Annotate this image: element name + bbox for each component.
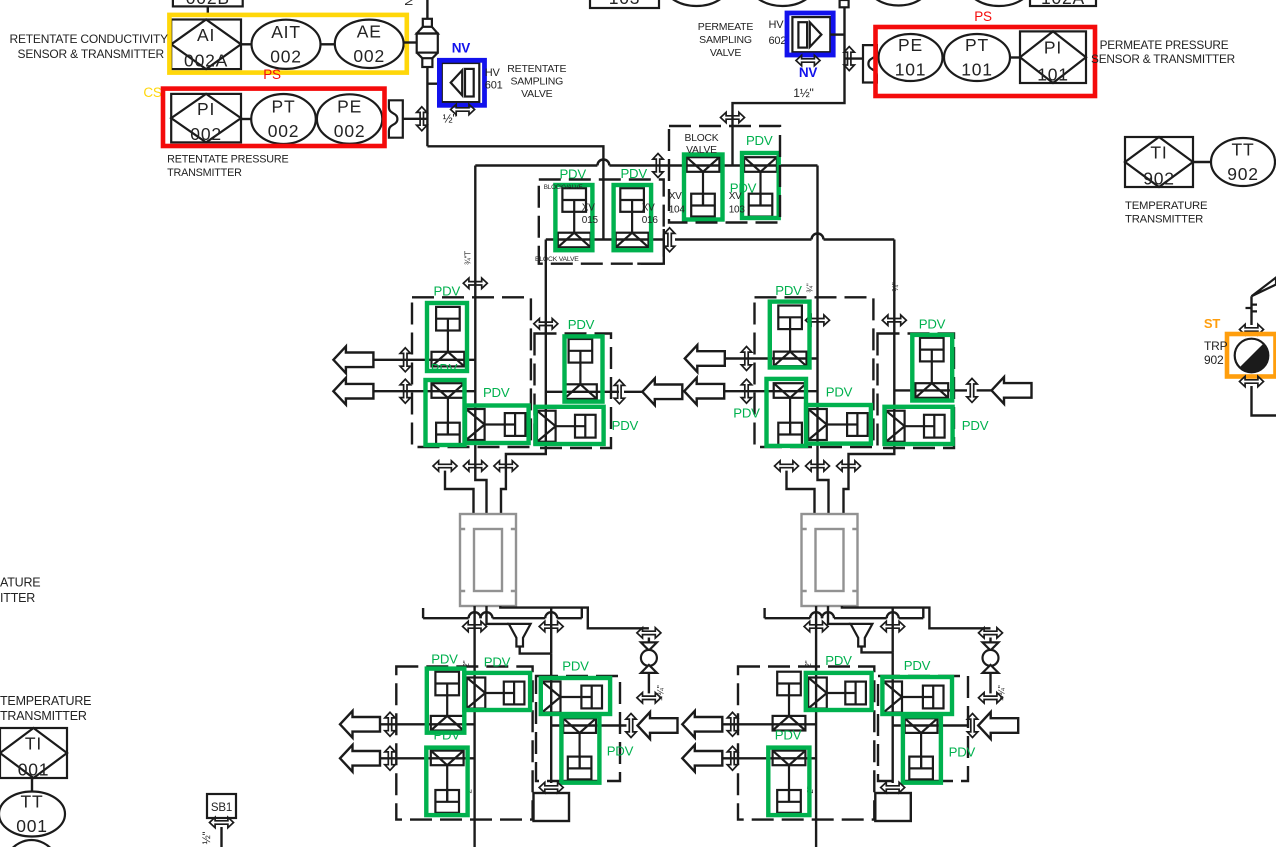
wire retentate line P1 to block valves: [427, 146, 603, 239]
pressure transmitter PT 002: [251, 94, 316, 144]
svg-text:PDV: PDV: [730, 181, 757, 196]
temperature transmitter TT 902: [1211, 138, 1275, 186]
pressure element PE 002: [317, 94, 382, 143]
wire funnel outlet to B1b: [520, 647, 552, 654]
svg-text:TRANSMITTER: TRANSMITTER: [167, 167, 242, 179]
highlight box PDV (green) top-left: [427, 303, 467, 371]
dashed boundary cluster A2 left box: [755, 297, 874, 447]
valve PDV b2 v1 (actuator top, no box): [773, 672, 806, 731]
flange row under cluster2 - 1: [775, 461, 799, 471]
svg-text:602: 602: [769, 35, 787, 47]
highlight box PDV (green) c2 right: [912, 335, 952, 401]
flange under HV601: [451, 104, 475, 114]
svg-text:PDV: PDV: [484, 655, 511, 670]
flange pipe2': [741, 379, 751, 403]
svg-text:N: N: [404, 0, 416, 6]
highlight box permeate pressure group (red): [876, 27, 1096, 96]
arrow pipe2' a: [684, 378, 724, 405]
wire PI to PT: [241, 118, 252, 120]
svg-text:¾": ¾": [805, 283, 814, 292]
flange above drain pot left: [539, 782, 563, 792]
highlight box PDV (green) b2 D: [882, 677, 952, 714]
flange pipe3: [614, 380, 624, 404]
highlight box XV103 (green): [742, 153, 779, 218]
wire steam supply slope symbol: [1252, 278, 1276, 297]
drain pot left: [534, 793, 570, 821]
valve PDV b2 right horizontal (PDV-D'): [883, 682, 943, 713]
svg-text:TRP: TRP: [1204, 339, 1228, 353]
svg-text:PDV: PDV: [431, 651, 458, 666]
flange pipe1': [741, 347, 751, 371]
svg-text:PS: PS: [263, 67, 281, 82]
instrument 103 (cut off at top edge): [590, 0, 659, 8]
wire B1b drop (funnel line through PDV-D): [550, 654, 552, 783]
svg-text:BLOCK VALVE: BLOCK VALVE: [535, 256, 579, 263]
wire pipe3 (right sub-box): [546, 391, 619, 393]
dashed boundary bottom-left cluster: [396, 667, 532, 820]
svg-text:PS: PS: [974, 9, 992, 24]
wire main line A2: [818, 166, 829, 515]
flange below drain valve left: [637, 693, 661, 703]
needle valve HV602: [792, 17, 830, 52]
svg-text:SAMPLING: SAMPLING: [510, 76, 563, 88]
wire pipe2': [724, 390, 817, 392]
flange on header2 branch right: [881, 621, 905, 631]
svg-text:SB1: SB1: [211, 802, 232, 814]
coupling on retentate transmitter line: [389, 100, 403, 137]
instrument 102A (cut off at top edge): [1030, 0, 1096, 8]
instrument ellipse (cut, above PE101): [866, 0, 931, 6]
svg-text:VALVE: VALVE: [710, 47, 741, 59]
drain sample valve left: [641, 642, 657, 673]
svg-text:016: 016: [642, 215, 659, 226]
instrument ellipse (cut, right): [749, 0, 817, 6]
flange left of XV104: [653, 154, 663, 178]
valve PDV horizontal cluster1: [466, 409, 525, 440]
analyzer transmitter AIT 002: [252, 20, 321, 69]
wire drain stem top left: [648, 638, 650, 643]
wire pipe-b bottom-right: [722, 757, 816, 759]
wire pipe-c bottom-left: [551, 724, 626, 726]
svg-text:TEMPERATURE: TEMPERATURE: [1125, 200, 1208, 212]
highlight box NV HV602 (blue): [787, 13, 833, 55]
svg-text:PDV: PDV: [746, 133, 773, 148]
svg-text:1½": 1½": [793, 86, 813, 100]
svg-text:PDV: PDV: [607, 744, 634, 759]
valve PDV b2 inverted-E: [905, 718, 938, 779]
wire line B2: [844, 240, 895, 515]
dashed boundary cluster A2 right box: [878, 334, 955, 449]
drain pot right: [875, 793, 911, 821]
svg-text:103: 103: [609, 0, 641, 8]
svg-text:601: 601: [485, 80, 503, 92]
svg-text:AE: AE: [357, 22, 382, 42]
inline filter body: [417, 19, 438, 67]
valve PDV b1 inverted-E: [563, 718, 596, 779]
svg-text:PDV: PDV: [433, 728, 460, 743]
svg-text:NV: NV: [452, 41, 471, 56]
dashed boundary cluster A1 right box: [535, 334, 612, 449]
svg-text:=¾": =¾": [997, 685, 1007, 700]
svg-text:PDV: PDV: [612, 418, 639, 433]
svg-text:½": ½": [443, 112, 457, 126]
wire header to PE101: [845, 57, 864, 59]
valve PDV b2 inverted: [773, 751, 806, 813]
svg-text:RETENTATE CONDUCTIVITY: RETENTATE CONDUCTIVITY: [10, 32, 169, 46]
block valve XV104: [687, 157, 720, 216]
membrane housing right: [802, 514, 858, 606]
svg-text:PERMEATE: PERMEATE: [698, 21, 754, 33]
wire AE to filter: [404, 41, 417, 43]
coupling on permeate transmitter line: [863, 45, 877, 82]
valve PDV c1 right horizontal: [537, 411, 596, 442]
svg-text:ATURE: ATURE: [0, 576, 40, 590]
highlight box PDV (green) c1 right: [565, 336, 603, 401]
temperature element TE 001 (cut at bottom): [0, 840, 65, 847]
dashed boundary bottom-right cluster: [738, 667, 874, 820]
wire coupling to sample line: [403, 118, 428, 120]
pressure element PE 101: [879, 34, 943, 81]
drain sample valve right: [983, 642, 999, 673]
wire header2 branch to B1b': [892, 608, 894, 653]
flange pipe-b': [727, 746, 737, 770]
outlet arrow pipe2: [333, 378, 373, 405]
svg-text:TT: TT: [1232, 140, 1255, 160]
svg-text:PDV: PDV: [431, 361, 458, 376]
highlight box XV015 (green): [555, 185, 592, 250]
flange on B1: [534, 319, 558, 329]
flange above drain pot right: [881, 782, 905, 792]
flange row under cluster1 - 3: [494, 461, 518, 471]
highlight box PDV (green) left inverted: [426, 380, 465, 445]
flange row under cluster1 - 1: [433, 461, 457, 471]
wire header1 right: [765, 608, 811, 618]
valve PDV inverted cluster1: [432, 383, 465, 445]
svg-text:002: 002: [268, 121, 300, 141]
pipe cap top of permeate line: [840, 0, 849, 7]
wire drain stem bottom right: [989, 673, 991, 694]
svg-text:PDV: PDV: [962, 418, 989, 433]
dashed boundary cluster A1 left box: [412, 297, 531, 447]
svg-text:CS: CS: [143, 85, 162, 100]
svg-text:902: 902: [1204, 353, 1224, 367]
svg-text:VALVE: VALVE: [686, 145, 717, 156]
wire funnel feed right: [828, 606, 851, 624]
flange on retentate drop right: [804, 621, 828, 631]
wire header2 left (permeate to drain): [500, 606, 649, 628]
flange on permeate drop (x=732): [721, 112, 745, 122]
block valve XV015: [558, 188, 591, 247]
svg-text:TI: TI: [25, 734, 42, 754]
wire retentate drop right (to bottom cluster): [815, 606, 817, 847]
highlight box PDV (green) b1 E: [561, 716, 599, 782]
flange pipe-c': [967, 714, 977, 738]
wire 002B to AI: [207, 6, 209, 15]
valve PDV c2 horizontal: [808, 409, 867, 440]
flange on header2 branch left: [539, 621, 563, 631]
svg-text:902: 902: [1227, 164, 1259, 184]
flange above steam trap: [1240, 324, 1264, 334]
flange pipe-b: [385, 746, 395, 770]
wire line B1: [501, 240, 546, 515]
temperature transmitter TT 001: [0, 792, 65, 837]
highlight box PDV (green) b1 D: [541, 678, 610, 714]
highlight box PDV (green) c2 v1: [770, 302, 810, 368]
svg-text:002: 002: [353, 46, 385, 66]
valve PDV b2 horizontal: [808, 678, 866, 709]
valve PDV b1 v1 (actuator top): [431, 672, 464, 731]
svg-text:TI: TI: [1150, 143, 1167, 163]
wire drain stem top right: [989, 638, 991, 643]
flange pipe-c: [626, 714, 636, 738]
svg-text:TEMPERATURE: TEMPERATURE: [0, 694, 91, 708]
svg-text:NV: NV: [799, 65, 818, 80]
highlight box PDV (green) c2 horizontal: [806, 405, 871, 444]
flange under SB1: [210, 817, 234, 827]
svg-text:AI: AI: [197, 25, 215, 45]
dashed boundary bottom-left right box: [536, 676, 620, 781]
wire pipe-a bottom-left: [380, 723, 475, 725]
arrow pipe3: [642, 378, 682, 405]
valve PDV b1 horizontal: [467, 678, 525, 709]
svg-text:½": ½": [201, 831, 213, 844]
flange row under cluster1 - 2: [463, 461, 487, 471]
valve PDV b1 right horizontal (PDV-D): [542, 682, 602, 713]
svg-text:BLOCK: BLOCK: [685, 133, 719, 144]
svg-text:104: 104: [669, 205, 686, 216]
svg-text:TRANSMITTER: TRANSMITTER: [0, 709, 87, 723]
svg-text:2": 2": [462, 660, 471, 667]
dashed boundary XV015/016 box: [539, 180, 664, 264]
wire pipe3' stub: [977, 389, 992, 391]
svg-text:SENSOR & TRANSMITTER: SENSOR & TRANSMITTER: [18, 47, 165, 61]
svg-text:101: 101: [961, 60, 993, 80]
wire TI902 to TT902: [1193, 161, 1211, 163]
wire PT101 to PI101: [1010, 56, 1020, 58]
flange above drain valve left: [637, 628, 661, 638]
svg-text:SENSOR & TRANSMITTER: SENSOR & TRANSMITTER: [1091, 52, 1235, 66]
flange right of XV016: [664, 228, 674, 252]
highlight box retentate pressure group (red): [163, 89, 385, 146]
wire AIT to AE: [321, 43, 335, 45]
wire drain stem bottom left: [648, 673, 650, 694]
outlet arrow pipe1: [333, 346, 373, 373]
flange pipe3': [967, 378, 977, 402]
wire pipe-b bottom-left: [380, 757, 475, 759]
wire pipe1': [725, 357, 818, 359]
svg-text:XV: XV: [642, 203, 655, 214]
wire permeate line P2 with hop over P1 drop: [475, 164, 597, 166]
wire header2 right (permeate to drain): [842, 606, 991, 628]
valve PDV c2 right-top: [915, 338, 948, 398]
flange under HV602: [796, 55, 820, 65]
highlight box PDV (green) b1 inverted: [426, 748, 467, 816]
arrow pipe-a: [340, 711, 380, 738]
flange row under cluster2 - 2: [806, 461, 830, 471]
svg-text:SAMPLING: SAMPLING: [699, 34, 752, 46]
wire permeate sample header: [733, 7, 845, 165]
wire pipe1 (upper outlet): [373, 359, 475, 361]
needle valve HV601: [442, 63, 480, 102]
wire header2 branch to B1b: [550, 608, 552, 654]
flange on retentate transmitter line: [417, 107, 427, 131]
arrow pipe3': [992, 377, 1032, 404]
arrow pipe-c': [978, 712, 1018, 739]
svg-text:PE: PE: [898, 35, 923, 55]
flange on B2: [882, 315, 906, 325]
highlight box PDV (green) b2 h: [806, 673, 872, 710]
funnel right: [851, 624, 873, 647]
svg-text:PT: PT: [272, 97, 296, 117]
block valve XV016: [616, 188, 649, 247]
svg-text:PDV: PDV: [562, 659, 589, 674]
pressure transmitter PT 101: [944, 34, 1010, 81]
svg-text:=¾": =¾": [656, 685, 666, 700]
svg-text:HV: HV: [769, 19, 785, 31]
arrow pipe-b': [682, 745, 722, 772]
instrument ellipse (cut, above PT101): [965, 0, 1033, 6]
highlight box PDV (green) c2 inverted: [767, 379, 807, 446]
flange pipe-a': [727, 712, 737, 736]
svg-text:RETENTATE PRESSURE: RETENTATE PRESSURE: [167, 154, 288, 166]
svg-text:¾": ¾": [891, 282, 900, 291]
pressure indicator PI 101: [1020, 31, 1086, 84]
svg-text:ST: ST: [1204, 316, 1220, 331]
wire TI001 to TT001: [31, 778, 33, 792]
valve PDV015a (actuator top): [432, 307, 465, 367]
flange below drain valve right: [979, 693, 1003, 703]
highlight box XV016 (green): [614, 185, 652, 250]
svg-text:2": 2": [804, 660, 813, 667]
highlight box NV HV601 (blue): [439, 60, 484, 105]
pressure indicator PI 002: [171, 94, 241, 144]
wire main line A1: [475, 166, 486, 515]
flange pipe2: [400, 379, 410, 403]
svg-text:PDV: PDV: [826, 385, 853, 400]
svg-text:PDV: PDV: [775, 283, 802, 298]
svg-text:VALVE: VALVE: [521, 88, 552, 100]
instrument ellipse (cut, left): [663, 0, 731, 6]
svg-text:103: 103: [729, 205, 746, 216]
svg-text:HV: HV: [485, 67, 501, 79]
wire pipe-a bottom-right: [722, 723, 816, 725]
wire retentate drop left (to bottom cluster): [473, 606, 475, 847]
svg-text:PDV: PDV: [904, 658, 931, 673]
svg-text:AIT: AIT: [271, 22, 301, 42]
valve PDV b1 inverted: [431, 751, 464, 813]
svg-text:PERMEATE PRESSURE: PERMEATE PRESSURE: [1100, 38, 1229, 52]
instrument 002B (cut off at top edge): [173, 0, 243, 8]
wire flange1 to housing: [445, 471, 474, 514]
svg-text:PDV: PDV: [775, 728, 802, 743]
flange on permeate transmitter line: [844, 47, 854, 71]
wire pipe2 (lower outlet): [373, 390, 475, 392]
svg-text:PDV: PDV: [949, 745, 976, 760]
svg-text:PDV: PDV: [919, 317, 946, 332]
wire stub near XV box: [637, 229, 664, 264]
flange pipe1: [400, 348, 410, 372]
svg-text:PDV: PDV: [733, 406, 760, 421]
svg-text:TRANSMITTER: TRANSMITTER: [1125, 214, 1203, 226]
svg-text:102A: 102A: [1041, 0, 1085, 8]
arrow pipe-a': [682, 711, 722, 738]
temperature indicator TI 902: [1125, 137, 1193, 189]
svg-text:PDV: PDV: [825, 653, 852, 668]
wire B1b' drop: [892, 652, 894, 783]
svg-text:101: 101: [895, 60, 927, 80]
wire pipe-c bottom-right: [893, 724, 968, 726]
valve PDV c2 right horizontal: [886, 411, 945, 442]
highlight box PS conductivity group (yellow): [169, 15, 406, 73]
membrane housing left: [460, 514, 516, 606]
svg-text:PDV: PDV: [568, 317, 595, 332]
arrow pipe-c: [638, 712, 678, 739]
flange on A2: [806, 315, 830, 325]
svg-text:PI: PI: [197, 99, 215, 119]
flange below steam trap: [1240, 376, 1264, 386]
valve PDV c2 v1 (actuator top): [774, 306, 807, 367]
highlight box PDV (green) b1 v1: [427, 669, 465, 733]
sample box SB1: [207, 794, 236, 818]
svg-text:PE: PE: [337, 97, 362, 117]
arrow pipe-b: [340, 745, 380, 772]
dashed boundary bottom-right right box: [878, 676, 968, 781]
svg-text:902: 902: [1143, 169, 1175, 189]
svg-text:TT: TT: [21, 792, 44, 812]
svg-text:PDV: PDV: [483, 385, 510, 400]
analyzer indicator AI 002A: [171, 20, 241, 71]
svg-text:PT: PT: [965, 35, 989, 55]
dashed boundary block valve box: [669, 126, 780, 223]
svg-text:ITTER: ITTER: [0, 591, 35, 605]
flange above drain valve right: [979, 628, 1003, 638]
wire N2 line down to filter: [426, 0, 428, 19]
wire tee to needle valve HV601: [427, 82, 441, 84]
wire pipe3': [894, 389, 967, 391]
valve PDV c2 inverted: [774, 383, 807, 445]
valve PDV c1 right-top (actuator top): [564, 339, 597, 399]
svg-text:XV: XV: [669, 191, 682, 202]
temperature indicator TI 001: [0, 728, 67, 780]
funnel left: [509, 624, 531, 647]
vent tick on steam line: [1246, 305, 1258, 312]
svg-text:¾"T: ¾"T: [463, 251, 472, 265]
highlight box XV104 (green): [684, 155, 723, 220]
analyzer element AE 002: [335, 20, 404, 68]
svg-text:001: 001: [18, 760, 50, 780]
svg-text:101: 101: [1037, 64, 1069, 84]
highlight box PDV (green) c2 right-h: [885, 407, 953, 444]
svg-text:PDV: PDV: [434, 283, 461, 298]
wire header1 left: [423, 608, 469, 618]
highlight box PDV (green) horizontal c1: [465, 406, 529, 444]
svg-text:002A: 002A: [184, 51, 228, 71]
highlight box PDV (green) c1 right-h: [536, 407, 604, 444]
wire steam trap outlet: [1252, 386, 1276, 416]
svg-text:RETENTATE: RETENTATE: [507, 63, 566, 75]
arrow pipe1': [685, 345, 725, 372]
highlight box steam trap (orange): [1227, 334, 1276, 377]
highlight box PDV (green) b2 inverted: [768, 748, 809, 816]
wire HV602 to header: [830, 33, 844, 35]
steam trap TRP902: [1235, 339, 1269, 373]
flange row under cluster2 - 3: [837, 461, 861, 471]
wire funnel outlet to B1b': [862, 647, 893, 653]
wire SB1 drain: [220, 827, 222, 847]
svg-text:015: 015: [582, 215, 599, 226]
svg-text:002: 002: [190, 124, 222, 144]
svg-text:BLOCKVALVE: BLOCKVALVE: [544, 184, 583, 191]
